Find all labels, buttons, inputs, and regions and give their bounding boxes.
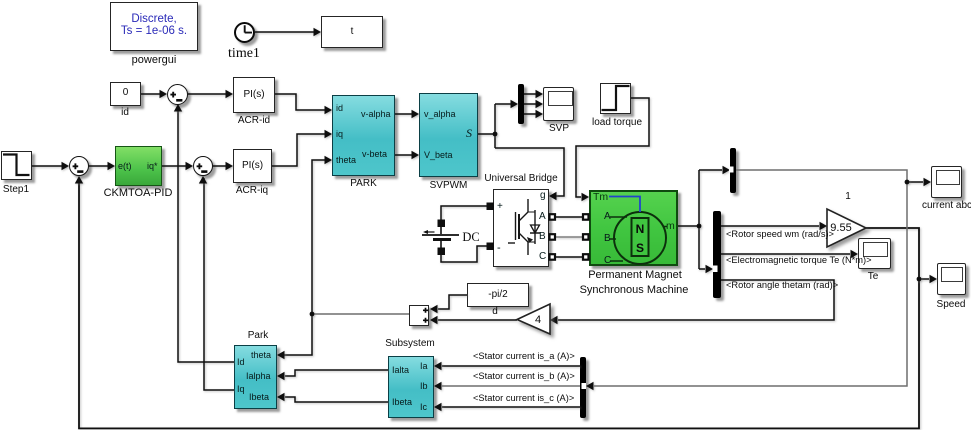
svg-text:S: S xyxy=(636,241,644,255)
wire load torque to Tm xyxy=(576,98,649,197)
arrows into SVP scope xyxy=(536,90,544,98)
arrow into SVPWM V_beta xyxy=(412,151,420,159)
port squares PMSM left xyxy=(583,214,589,220)
wire PARK v-beta to SVPWM xyxy=(395,154,417,156)
wire m to demux xyxy=(699,268,705,270)
wire mux branch to scope current xyxy=(907,181,923,183)
scope Speed xyxy=(937,263,966,295)
arrow into CKMTOA xyxy=(108,162,116,170)
icon magnet N S xyxy=(632,218,649,256)
arrow into PARK theta xyxy=(325,156,333,164)
wire ACR-iq to PARK iq xyxy=(272,134,330,166)
wire demux torque to Te xyxy=(721,253,850,255)
wire DC minus xyxy=(441,246,488,262)
block t (To Workspace) xyxy=(321,16,383,48)
wire theta net vertical xyxy=(312,160,330,314)
wire stator is_b xyxy=(442,385,580,387)
wire clock to t xyxy=(255,31,319,33)
arrow into S3 in1 xyxy=(430,305,438,313)
wire DC plus xyxy=(441,206,488,221)
port squares DC terminals xyxy=(438,203,589,260)
arrow into S2 xyxy=(186,162,194,170)
wire S0 to CKMTOA xyxy=(89,165,113,167)
icon IGBT inside bridge xyxy=(508,199,540,255)
junction speed node xyxy=(917,277,922,282)
wire Park Id feedback xyxy=(178,107,234,362)
block SVPWM xyxy=(419,93,478,177)
signal label is_a xyxy=(473,352,575,361)
scope SVP xyxy=(543,87,574,121)
wire Park Iq feedback xyxy=(204,178,234,390)
wire SVPWM S junction xyxy=(478,104,495,148)
signal label is_c xyxy=(473,394,574,403)
arrow into PARK id xyxy=(325,106,333,114)
gain triangle 4 xyxy=(517,304,550,334)
svg-text:N: N xyxy=(636,222,645,236)
mux current bus selector (top) xyxy=(730,148,736,193)
wire CKMTOA to S2 xyxy=(162,165,191,167)
wire S to SVP demux xyxy=(495,103,516,105)
wire id0 to S1 xyxy=(141,93,165,95)
block Subsystem xyxy=(388,356,434,418)
wire m junction xyxy=(678,170,699,269)
mux port markers white xyxy=(582,167,734,390)
wire gain4 to S3 xyxy=(438,319,517,321)
wire PARK v-alpha to SVPWM xyxy=(395,113,417,115)
arrow into S1 xyxy=(160,90,168,98)
mux SVP demux bar xyxy=(518,84,524,124)
arrow into Speed scope xyxy=(930,275,938,283)
arrows into Park theta Ialpha Ibeta xyxy=(277,351,285,359)
wire S3 output to theta xyxy=(312,313,409,315)
demux stator current selector xyxy=(580,357,586,418)
wire Subsystem Ialta to Park xyxy=(285,370,388,376)
sum S3 rectangular xyxy=(409,305,429,326)
arrow into gain 9.55 xyxy=(820,222,828,230)
scope Te xyxy=(858,238,891,269)
text d (wire label) xyxy=(485,306,505,317)
junction m node xyxy=(697,224,702,229)
arrow up into S0 bottom xyxy=(75,176,83,184)
sum S3 plus plus xyxy=(423,308,428,323)
svg-text:4: 4 xyxy=(535,314,541,326)
block CKMTOA-PID xyxy=(115,146,162,186)
arrow into rotor demux xyxy=(706,265,714,273)
sum S1 plus minus xyxy=(170,92,182,101)
arrow up into S1 bottom xyxy=(174,104,182,112)
arrow into PMSM Tm xyxy=(582,193,590,201)
arrow into PARK iq xyxy=(325,130,333,138)
wire stator is_c xyxy=(442,406,580,408)
arrow into S0 xyxy=(62,162,70,170)
wire S2 to ACR-iq xyxy=(213,165,231,167)
block Step1 xyxy=(1,151,32,180)
arrow into bridge g xyxy=(549,192,557,200)
sum S2 plus minus xyxy=(197,163,208,171)
block PARK xyxy=(332,95,395,176)
arrow up into S2 bottom xyxy=(199,176,207,184)
arrow into current abc scope xyxy=(924,178,932,186)
block powergui xyxy=(110,2,198,51)
wire gain 9.55 output feedback xyxy=(79,178,919,428)
block Universal Bridge xyxy=(493,189,549,267)
wire theta to Park lower xyxy=(279,314,312,355)
arrow into ACR-iq xyxy=(226,162,234,170)
junction theta node xyxy=(310,312,315,317)
icon battery DC source xyxy=(422,226,459,249)
arrow into top mux xyxy=(723,166,731,174)
arrow into S3 in2 xyxy=(430,316,438,324)
demux rotor bus selector xyxy=(713,211,721,298)
wire demux rotor speed to gain xyxy=(721,225,819,227)
wire S to bridge g xyxy=(495,148,564,196)
gain 9.55 (block 1) xyxy=(818,191,878,202)
wire branch to Speed scope xyxy=(919,278,929,280)
wire stator is_a xyxy=(442,365,580,367)
wire m to mux xyxy=(699,169,722,171)
icon step load torque xyxy=(602,86,630,110)
sum S2 xyxy=(193,156,213,176)
signal label is_b xyxy=(473,372,575,381)
arrow into ACR-id xyxy=(226,90,234,98)
clock time1 xyxy=(234,22,255,43)
wire Tm blue xyxy=(609,197,640,213)
wire bridge B to PMSM xyxy=(556,236,582,238)
sum S0 plus minus xyxy=(73,163,84,171)
wire ACR-id to PARK id xyxy=(275,94,330,110)
scope current abc xyxy=(931,166,962,198)
wire SVP demux to scope xyxy=(524,94,541,114)
wire bus mux to stator demux xyxy=(594,170,907,386)
block PMSM xyxy=(589,190,678,266)
icon clock hands xyxy=(245,25,252,32)
signal label rotor speed xyxy=(726,230,834,239)
sum S1 xyxy=(167,84,188,105)
arrows into Subsystem Ia Ib Ic xyxy=(434,362,442,370)
signal label torque xyxy=(726,256,872,265)
block load torque xyxy=(600,83,631,114)
wire bridge A to PMSM xyxy=(556,216,582,218)
sum S0 xyxy=(69,156,89,176)
block ACR-id xyxy=(233,77,275,113)
block ACR-iq xyxy=(233,149,272,183)
icon PMSM motor circle xyxy=(609,197,667,265)
icon step Step1 xyxy=(3,155,30,176)
signal label rotor angle xyxy=(726,281,838,290)
arrow into t xyxy=(314,28,322,36)
wire S1 to ACR-id xyxy=(188,93,231,95)
wire Subsystem Ibeta to Park xyxy=(285,397,388,402)
arrow into stator demux xyxy=(586,382,594,390)
arrow into gain 4 xyxy=(550,316,558,324)
wire bridge C to PMSM xyxy=(556,256,582,258)
wire -pi/2 to S3 xyxy=(438,295,467,309)
block id constant 0 xyxy=(110,82,141,106)
junction S node xyxy=(493,132,498,137)
gain triangle 9.55 xyxy=(827,209,866,247)
wire Step1 to S0 xyxy=(32,165,67,167)
text DC xyxy=(456,230,486,244)
wire demux rotor angle to gain4 xyxy=(558,280,834,320)
arrow into SVP demux xyxy=(511,100,519,108)
arrow into SVPWM v_alpha xyxy=(412,110,420,118)
port squares bridge left xyxy=(487,203,495,211)
arrow into Te scope xyxy=(851,250,859,258)
port squares bridge right xyxy=(550,214,556,220)
block Park (inverse) xyxy=(234,345,277,409)
junction current bus node xyxy=(905,180,910,185)
block -pi/2 xyxy=(467,283,529,307)
